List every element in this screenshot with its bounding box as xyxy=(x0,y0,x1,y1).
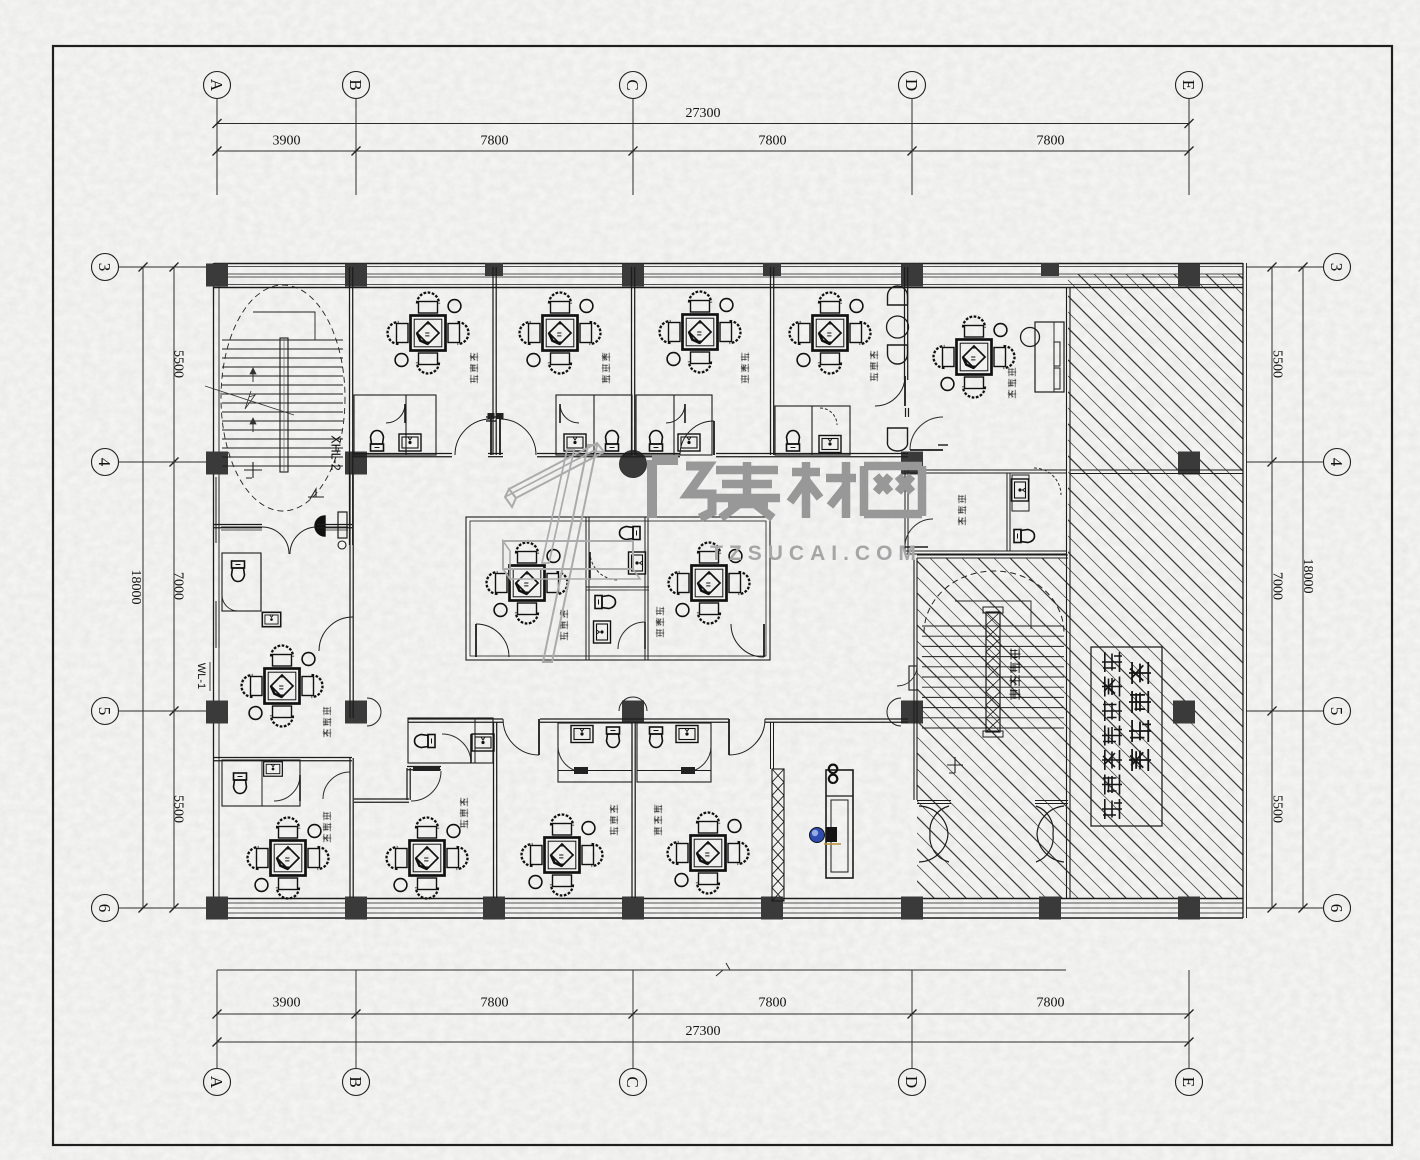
svg-text:5: 5 xyxy=(95,707,114,716)
corridor north wall xyxy=(352,453,452,455)
svg-text:D: D xyxy=(902,79,921,91)
watermark brand characters xyxy=(652,460,678,518)
svg-text:7800: 7800 xyxy=(759,134,787,149)
bottom rooms divider B xyxy=(349,758,351,898)
svg-text:WL-1: WL-1 xyxy=(195,663,207,689)
entry door top room 3 xyxy=(680,421,714,455)
svg-text:E: E xyxy=(1179,1077,1198,1087)
bathroom of bottom room 3 xyxy=(558,723,632,782)
bottom row columns xyxy=(206,897,228,920)
svg-text:7800: 7800 xyxy=(1037,134,1065,149)
grid axis circles left 3-6 xyxy=(92,254,119,281)
top rooms divider wall D xyxy=(904,267,906,380)
service bathroom fixtures xyxy=(1012,475,1029,511)
small room name labels xyxy=(470,353,479,362)
bathroom of mid-left room xyxy=(222,553,261,611)
svg-text:D: D xyxy=(902,1076,921,1088)
svg-text:C: C xyxy=(623,79,642,90)
stair hall top wall xyxy=(917,554,1068,556)
top rooms divider wall x494 xyxy=(492,267,494,455)
svg-text:3: 3 xyxy=(1327,263,1346,272)
top segment dimensions xyxy=(217,150,1189,152)
svg-text:TZSUCAI.COM: TZSUCAI.COM xyxy=(710,542,922,565)
entrance vestibule curved doors xyxy=(917,800,951,802)
svg-text:27300: 27300 xyxy=(686,1024,721,1039)
reception desk with telephone and computer xyxy=(826,770,853,878)
left exterior wall xyxy=(213,263,215,918)
bottom segment dimensions xyxy=(217,1013,1189,1015)
shaded-area annotation box (Chinese) xyxy=(1091,647,1162,826)
svg-text:5: 5 xyxy=(1327,707,1346,716)
svg-text:7800: 7800 xyxy=(759,996,787,1011)
door center-left room xyxy=(476,624,509,657)
svg-text:E: E xyxy=(1179,80,1198,90)
bottom rooms divider x495 xyxy=(493,722,495,898)
building extension line with break xyxy=(217,969,1066,971)
svg-text:3: 3 xyxy=(95,263,114,272)
glazed screen with X-braces xyxy=(772,769,784,901)
grid axis circles bottom A-E xyxy=(204,1069,231,1096)
svg-text:7800: 7800 xyxy=(1037,996,1065,1011)
stair hall east wall xyxy=(1066,287,1068,898)
corner wash basin at stair lobby xyxy=(315,516,325,536)
top rooms divider wall C xyxy=(631,267,633,455)
svg-text:XHL-2: XHL-2 xyxy=(329,435,343,470)
service room walls xyxy=(908,469,1066,471)
bathroom of bottom room 4 xyxy=(637,723,711,782)
center private-room block outer walls xyxy=(466,517,770,660)
svg-text:3900: 3900 xyxy=(273,134,301,149)
svg-text:7000: 7000 xyxy=(170,572,185,600)
watermark logo 7 xyxy=(509,443,604,498)
bathroom of bottom room 2 xyxy=(408,718,493,763)
left segment dimensions xyxy=(173,267,175,908)
corridor south wall xyxy=(408,718,503,720)
top overall dimension 27300 xyxy=(217,123,1189,125)
door to bottom room 4 xyxy=(729,719,765,755)
door center-right room xyxy=(731,624,764,657)
row4 wall in shaded strip xyxy=(1070,469,1243,471)
bathroom of top room 1 xyxy=(354,395,436,455)
bathroom of bottom room 1 xyxy=(222,760,300,806)
top row columns and mullions xyxy=(206,264,228,287)
svg-text:6: 6 xyxy=(1327,904,1346,913)
sideboard cabinet and stool in top room 5 xyxy=(1035,322,1064,392)
upper middle bathroom fixtures xyxy=(620,527,641,540)
left overall dimension 18000 xyxy=(142,267,144,908)
stair section cut line and direction arrows xyxy=(205,386,294,415)
svg-text:6: 6 xyxy=(95,904,114,913)
svg-text:18000: 18000 xyxy=(1300,559,1315,594)
svg-text:18000: 18000 xyxy=(128,570,143,605)
grid axis circles right 3-6 xyxy=(1324,254,1351,281)
right exterior wall xyxy=(1242,263,1244,918)
svg-text:B: B xyxy=(346,1076,365,1087)
door to bottom room 2 from lobby xyxy=(411,771,441,801)
svg-text:3900: 3900 xyxy=(273,996,301,1011)
door leaf on stair hall west wall xyxy=(909,666,917,690)
bottom rooms divider C xyxy=(631,722,633,898)
stair flight top-left xyxy=(221,285,345,511)
door to bottom room 3 xyxy=(503,719,539,755)
top exterior window-wall band xyxy=(214,263,1243,265)
svg-text:7000: 7000 xyxy=(1269,572,1284,600)
wall B mid section xyxy=(349,473,351,718)
svg-text:C: C xyxy=(623,1076,642,1087)
top rooms divider wall B-side (stair right wall) xyxy=(349,267,351,545)
row-4 columns (C4 round) xyxy=(206,452,228,475)
svg-text:5500: 5500 xyxy=(170,350,185,378)
room5 west wall lower xyxy=(905,408,907,417)
entry door top room 5 at D wall xyxy=(910,417,943,450)
stair up-down glyphs xyxy=(244,462,262,478)
center block divider 2 xyxy=(644,517,646,660)
dining table sets (square table, four chairs, two stools) xyxy=(388,293,469,374)
svg-text:A: A xyxy=(207,79,226,92)
bottom overall dimension 27300 xyxy=(217,1041,1189,1043)
svg-text:7800: 7800 xyxy=(481,996,509,1011)
service room door xyxy=(905,519,933,547)
center block mid partition xyxy=(586,586,649,588)
center block divider 1 xyxy=(585,517,587,660)
entry door top room 4 xyxy=(875,376,905,406)
svg-text:B: B xyxy=(346,79,365,90)
bathroom of top room 2 xyxy=(556,395,632,455)
bathroom of top room 3 xyxy=(636,395,712,455)
svg-text:4: 4 xyxy=(95,458,114,467)
bathroom of top room 4 xyxy=(775,406,850,455)
bottom rooms divider x772 xyxy=(770,722,772,769)
stair lobby double door xyxy=(221,526,262,528)
grid axis circles top A-E xyxy=(204,72,231,99)
right segment dimensions xyxy=(1271,267,1273,908)
double entry doors to top rooms 1-2 xyxy=(455,419,491,455)
svg-text:5500: 5500 xyxy=(1269,795,1284,823)
stair hall label (Chinese) xyxy=(1010,649,1021,660)
stair hall left wall xyxy=(913,558,915,800)
svg-text:A: A xyxy=(207,1076,226,1089)
lobby south step wall xyxy=(354,798,409,800)
lounge chairs along D wall xyxy=(888,286,908,305)
lower middle bathroom fixtures xyxy=(595,596,616,609)
door to bottom room 1 xyxy=(323,772,350,799)
bottom exterior window-wall band xyxy=(214,898,1243,900)
bottom-left room top wall xyxy=(214,757,352,759)
stair up glyph xyxy=(947,757,963,773)
mid-left room top wall xyxy=(214,524,262,526)
svg-text:5500: 5500 xyxy=(1269,350,1284,378)
svg-text:7800: 7800 xyxy=(481,134,509,149)
main stair flight (shaded hall) xyxy=(922,625,1064,627)
right overall dimension 18000 xyxy=(1302,267,1304,908)
door to mid-left room xyxy=(319,617,353,651)
svg-text:27300: 27300 xyxy=(686,106,721,121)
svg-text:4: 4 xyxy=(1327,458,1346,467)
row-5 columns with half-round faces xyxy=(206,701,228,724)
svg-text:5500: 5500 xyxy=(170,795,185,823)
top rooms divider wall x772 xyxy=(770,267,772,455)
